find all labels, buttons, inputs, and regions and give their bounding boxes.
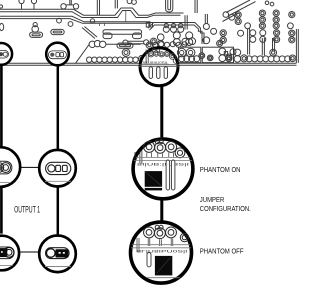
svg-text:PHANTOM OFF: PHANTOM OFF bbox=[200, 246, 244, 255]
wire connector A-B bbox=[21, 166, 39, 168]
pad oval left edge bbox=[0, 23, 4, 30]
pad hang bumps bbox=[57, 18, 62, 23]
pads inside box2 bbox=[207, 55, 213, 61]
pin capsule D2 bbox=[147, 253, 151, 267]
svg-text:8I|UB:|IU8S|I: 8I|UB:|IU8S|I bbox=[137, 162, 189, 166]
svg-text:8Г|U8IPU0S|I: 8Г|U8IPU0S|I bbox=[137, 249, 188, 253]
board chords D1 bbox=[134, 157, 192, 160]
wire top-right diagonals bbox=[223, 0, 256, 22]
wire leader left column bbox=[0, 64, 3, 234]
jumper cap black bbox=[55, 249, 68, 257]
trace verticals D1 bbox=[135, 151, 142, 165]
trace polygon mid bbox=[148, 23, 204, 45]
svg-text:JUMPER: JUMPER bbox=[200, 195, 225, 204]
pad grid top right bbox=[235, 12, 241, 18]
board region diagonal edge bbox=[76, 44, 141, 63]
pad rings D2 bbox=[144, 227, 155, 238]
resistor footprint capsule2 bbox=[51, 29, 64, 34]
svg-text:PHANTOM ON: PHANTOM ON bbox=[200, 165, 241, 174]
resistor footprint capsule1 bbox=[30, 32, 43, 37]
pin headers in C3 bbox=[149, 67, 167, 79]
svg-text:8ILJ8IIU0SIL: 8ILJ8IIU0SIL bbox=[143, 61, 169, 65]
jumper cap black D2 bbox=[155, 256, 172, 276]
pad caterpillar left bbox=[87, 57, 139, 62]
wire staple loop bbox=[166, 0, 173, 12]
pads top row bbox=[19, 0, 24, 4]
wire small diagonals bbox=[82, 27, 97, 39]
trace vertical in C3 bbox=[146, 50, 148, 64]
pad caterpillar right bbox=[246, 56, 291, 62]
component boxes right of callout bbox=[179, 47, 201, 62]
pads inside box1 bbox=[177, 48, 186, 57]
resistor capsule3 bbox=[117, 43, 133, 48]
pad bumps in polygon bbox=[166, 23, 180, 25]
bottom chord D2 bbox=[147, 277, 180, 279]
wire leader second column bbox=[57, 64, 60, 235]
trace legs D2 bbox=[137, 238, 173, 252]
wire trace stub pair bbox=[0, 16, 151, 23]
pad stacks mid bbox=[157, 34, 164, 41]
pads above boxes bbox=[182, 38, 189, 45]
relay footprint crown bbox=[103, 30, 142, 34]
wire trace pair upper-left bbox=[0, 8, 184, 18]
dogbone footprint bbox=[123, 40, 128, 45]
pad rings in C3 bbox=[148, 52, 153, 57]
pad stubs small rects bbox=[146, 23, 149, 28]
board edge chords in C3 bbox=[139, 65, 179, 67]
wire connector C-D bbox=[20, 251, 39, 253]
jumper cap black bbox=[0, 248, 7, 257]
pad circles polygon edge bbox=[89, 41, 95, 47]
pin capsules D1 bbox=[166, 160, 175, 190]
jumper cap black D1 bbox=[145, 171, 162, 187]
pad ring bbox=[122, 49, 130, 57]
wire leader middle column bbox=[160, 87, 163, 221]
svg-text:OUTPUT 1: OUTPUT 1 bbox=[14, 205, 40, 216]
pad rings D1 bbox=[144, 141, 155, 152]
pads row above big callout bbox=[146, 42, 152, 48]
svg-text:CONFIGURATION.: CONFIGURATION. bbox=[200, 204, 251, 213]
board chords D2 bbox=[131, 245, 191, 248]
wire hairline and stems bbox=[100, 11, 126, 27]
board bottom edge bbox=[0, 63, 297, 65]
wire vertical traces bbox=[97, 0, 298, 63]
capacitor footprint snowman bbox=[33, 23, 37, 27]
